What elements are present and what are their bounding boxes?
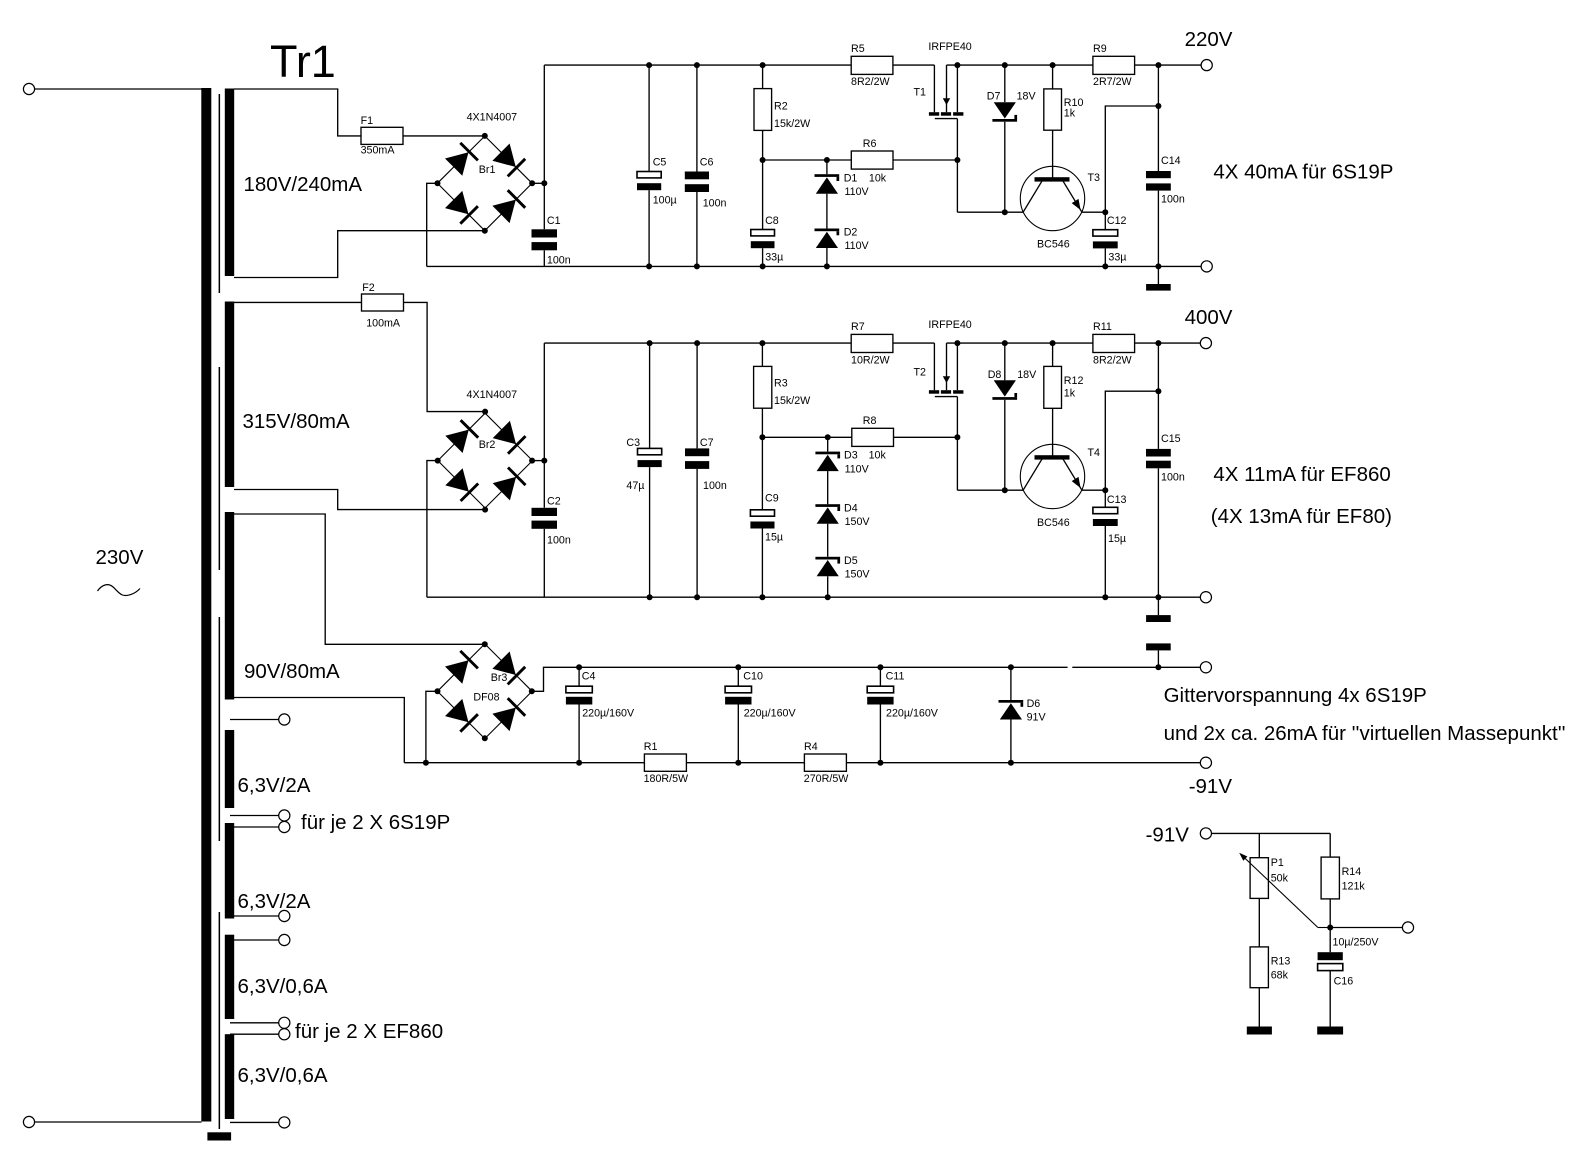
resistor R13 [1250, 947, 1268, 988]
wire C12 top lead [1104, 212, 1106, 230]
svg-text:C15: C15 [1161, 433, 1181, 445]
wire heater tap 6S19P a [230, 815, 279, 817]
svg-text:R11: R11 [1093, 321, 1112, 333]
zener diode D6 91V [999, 700, 1024, 720]
bridge rectifier Br1 diode L-T [445, 143, 478, 176]
ground bar section 1 [1146, 284, 1171, 291]
node C4 bottom [576, 760, 582, 766]
wire D6 bottom lead [1010, 720, 1012, 763]
svg-text:R14: R14 [1342, 866, 1362, 878]
svg-text:8R2/2W: 8R2/2W [1093, 354, 1133, 366]
svg-text:D5: D5 [844, 555, 858, 567]
wire R8 feedback line [762, 436, 851, 438]
wire bottom rail 1 [427, 265, 1201, 267]
zener diode D1 110V [815, 174, 840, 194]
svg-text:110V: 110V [845, 240, 870, 252]
terminal return 220V [1201, 261, 1212, 272]
wire C9 top lead [761, 437, 763, 510]
wire D1 top lead [826, 160, 828, 174]
svg-text:4X 40mA für 6S19P: 4X 40mA für 6S19P [1213, 161, 1393, 184]
capacitor C8 [751, 230, 775, 249]
node R10 top [1050, 62, 1056, 68]
bridge rectifier Br1 diode T-R [492, 144, 525, 177]
wire R8 to gate node [894, 436, 958, 438]
wire T1 gate drop [956, 119, 958, 213]
wire top rail 3 right segment [1072, 666, 1200, 668]
svg-text:-91V: -91V [1189, 775, 1233, 798]
wire heater tap 6,3V/2A b1 [230, 915, 279, 917]
terminal bias 0V [1200, 662, 1211, 673]
terminal heater tap 6S19P b [279, 821, 290, 832]
transistor T3 BC546 circle [1020, 166, 1084, 230]
wire R14 bottom lead [1329, 899, 1331, 928]
svg-text:D4: D4 [844, 502, 858, 514]
zener diode D2 110V [815, 229, 840, 249]
wire winding2 top to F2 [234, 301, 362, 303]
wire C8 bottom lead [762, 248, 764, 266]
svg-text:D8: D8 [988, 369, 1002, 381]
node D3 top [825, 434, 831, 440]
wire C2 bottom [543, 529, 545, 597]
terminal output 220V [1201, 60, 1212, 71]
node sense C14 [1155, 103, 1161, 109]
svg-text:15µ: 15µ [765, 532, 783, 544]
wire sense line 2 [1105, 391, 1158, 490]
wire C14 top lead [1157, 65, 1159, 171]
svg-text:für je 2 X EF860: für je 2 X EF860 [295, 1020, 443, 1043]
svg-text:und 2x ca. 26mA für ''virtuel: und 2x ca. 26mA für ''virtuellen Massepu… [1164, 722, 1566, 745]
node Br3 bottom [482, 735, 488, 741]
node R11 right [1155, 340, 1161, 346]
svg-text:R7: R7 [851, 321, 865, 333]
resistor R7 [851, 334, 893, 352]
svg-text:R4: R4 [804, 741, 818, 753]
svg-text:T3: T3 [1088, 172, 1101, 184]
svg-text:2R7/2W: 2R7/2W [1093, 76, 1133, 88]
wire C4 top lead [578, 667, 580, 686]
wire top rail 1 right [947, 64, 1202, 66]
svg-text:R3: R3 [774, 378, 788, 390]
svg-text:10k: 10k [869, 172, 887, 184]
wire Br3 right to top rail 3 [532, 667, 1068, 691]
svg-text:T4: T4 [1088, 447, 1101, 459]
wire C6 bottom lead [696, 192, 698, 266]
svg-text:DF08: DF08 [473, 692, 499, 704]
node Br3 rail junction [423, 760, 429, 766]
node Br2 left [435, 458, 441, 464]
svg-text:270R/5W: 270R/5W [804, 773, 849, 785]
node C11 top [877, 664, 883, 670]
node sense C15 [1155, 388, 1161, 394]
svg-text:91V: 91V [1027, 712, 1047, 724]
wire heater tap bottom [230, 1121, 279, 1123]
terminal primary top-left [23, 83, 34, 94]
wire P1 to R13 [1258, 898, 1260, 947]
wire C12 bottom lead [1104, 248, 1106, 266]
wire P1 top lead [1258, 833, 1260, 857]
svg-text:C16: C16 [1334, 976, 1354, 988]
svg-text:C12: C12 [1107, 215, 1127, 227]
transistor T1 IRFPE40 gate line [935, 118, 958, 120]
wire wiper output [1330, 927, 1402, 929]
wire Br2 plus [532, 460, 544, 462]
bridge rectifier Br3 diamond outline [437, 644, 532, 739]
svg-text:P1: P1 [1271, 857, 1284, 869]
terminal heater tap 6S19P a [279, 810, 290, 821]
svg-text:T2: T2 [914, 367, 927, 379]
svg-text:230V: 230V [96, 546, 144, 569]
node C5 bottom [646, 263, 652, 269]
svg-text:R8: R8 [863, 415, 877, 427]
fuse F1 [361, 127, 403, 144]
svg-text:18V: 18V [1017, 369, 1037, 381]
transistor T1 IRFPE40 drain lead [933, 65, 935, 112]
node C5 top [646, 62, 652, 68]
transistor T2 IRFPE40 channel bars [929, 390, 963, 394]
bridge rectifier Br3 diode L-T [445, 651, 478, 684]
wire C5 top lead [648, 65, 650, 171]
node R2-R6 [760, 157, 766, 163]
wire heater tap EF860 b [230, 1033, 279, 1035]
wire C7 bottom lead [696, 469, 698, 597]
svg-text:10k: 10k [869, 450, 887, 462]
node R2 top [760, 62, 766, 68]
svg-text:Br3: Br3 [491, 672, 508, 684]
capacitor C14 [1146, 171, 1171, 191]
transistor T2 IRFPE40 source lead [956, 343, 958, 390]
wire C3 top lead [649, 343, 651, 448]
transformer secondary winding bar 6,3V/0,6A a [225, 935, 234, 1019]
svg-text:50k: 50k [1271, 873, 1289, 885]
capacitor C7 [685, 448, 709, 469]
wire DC riser C1 [543, 65, 545, 229]
node C7 top [694, 340, 700, 346]
resistor R14 [1321, 857, 1339, 899]
terminal primary bottom-left [23, 1116, 34, 1127]
zener diode D8 18V [992, 380, 1017, 400]
svg-text:D2: D2 [844, 227, 858, 239]
node C14 bottom [1155, 263, 1161, 269]
svg-text:8R2/2W: 8R2/2W [851, 76, 891, 88]
svg-text:für je 2 X 6S19P: für je 2 X 6S19P [301, 811, 450, 834]
wire C16 top lead [1329, 928, 1331, 953]
svg-text:C7: C7 [700, 437, 714, 449]
wire R3 top lead [761, 343, 763, 366]
svg-text:100n: 100n [703, 480, 727, 492]
wire winding1 top to F1 [234, 89, 361, 136]
node Br1 bottom [482, 228, 488, 234]
capacitor C6 [685, 172, 709, 193]
node D8 top [1002, 340, 1008, 346]
wire C10 top lead [737, 667, 739, 686]
wire C13 top lead [1104, 490, 1106, 507]
bridge rectifier Br2 diode B-R [493, 468, 526, 501]
transistor T2 IRFPE40 drain lead [933, 343, 935, 390]
svg-text:Br1: Br1 [479, 164, 496, 176]
wire primary bottom [35, 1121, 202, 1123]
node Br3 left [435, 688, 441, 694]
terminal output 400V [1200, 338, 1211, 349]
svg-text:15k/2W: 15k/2W [774, 395, 811, 407]
node T2 source rail [954, 340, 960, 346]
wire C13 bottom lead [1104, 526, 1106, 597]
transistor T2 IRFPE40 gate line [935, 396, 958, 398]
wire R10 bottom lead [1052, 130, 1054, 177]
node D7 base junction [1002, 209, 1008, 215]
potentiometer P1 50k [1250, 858, 1268, 899]
svg-text:-91V: -91V [1146, 824, 1190, 847]
wire D1-D2 link [826, 194, 828, 229]
node C3 top [647, 340, 653, 346]
svg-text:33µ: 33µ [1108, 251, 1126, 263]
svg-text:C10: C10 [743, 670, 763, 682]
wire top rail 1 left [544, 64, 934, 66]
svg-text:C1: C1 [547, 215, 561, 227]
svg-text:4X1N4007: 4X1N4007 [467, 389, 518, 401]
capacitor C11 [867, 686, 893, 704]
capacitor C3 [638, 448, 662, 467]
wire DC riser C2 [543, 343, 545, 508]
svg-text:100n: 100n [1161, 472, 1185, 484]
resistor R11 [1093, 334, 1135, 352]
AC squiggle under 230V [98, 585, 141, 596]
capacitor C10 [725, 686, 751, 704]
node Br1 left [435, 180, 441, 186]
wire top rail 2 right [947, 342, 1201, 344]
transformer secondary winding bar 6,3V/0,6A b [225, 1034, 234, 1119]
wire D4-D5 link [827, 524, 829, 557]
node D2 bottom [824, 263, 830, 269]
wire base line T3 [957, 211, 1023, 213]
transformer Tr1 primary winding bar [201, 88, 211, 1122]
wire winding3 bottom to rail [234, 698, 404, 763]
wire sense line 1 [1105, 106, 1158, 212]
node C8 bottom [760, 263, 766, 269]
svg-text:110V: 110V [845, 463, 870, 475]
wire C8 top lead [762, 160, 764, 230]
svg-text:1k: 1k [1064, 107, 1076, 119]
capacitor C2 [532, 508, 558, 529]
zener diode D4 150V [815, 504, 840, 524]
transistor T3 BC546 base bar [1035, 177, 1070, 181]
svg-text:6,3V/0,6A: 6,3V/0,6A [238, 1064, 328, 1087]
wire C14 bottom lead [1157, 191, 1159, 267]
svg-text:C4: C4 [582, 670, 596, 682]
svg-text:150V: 150V [845, 569, 871, 581]
terminal heater tap 6,3V/2A b1 [279, 910, 290, 921]
svg-text:100n: 100n [1161, 194, 1185, 206]
svg-text:D6: D6 [1027, 698, 1041, 710]
node D1 top [824, 157, 830, 163]
wire winding3 top to Br3 [234, 514, 485, 644]
wire C4 bottom lead [578, 705, 580, 763]
svg-text:IRFPE40: IRFPE40 [928, 319, 971, 331]
transistor T4 BC546 collector lead [1023, 459, 1042, 490]
svg-text:D1: D1 [844, 172, 858, 184]
svg-text:F1: F1 [361, 115, 374, 127]
wire R6 to gate node [893, 159, 957, 161]
svg-text:IRFPE40: IRFPE40 [928, 41, 971, 53]
node emitter C12 [1102, 209, 1108, 215]
svg-text:BC546: BC546 [1037, 238, 1070, 250]
wire C5 bottom lead [648, 190, 650, 266]
wire T4 emitter to C13 [1082, 489, 1106, 491]
zener diode D3 110V [815, 452, 840, 472]
capacitor C12 [1093, 230, 1118, 249]
svg-text:T1: T1 [914, 87, 927, 99]
wire R12 top lead [1052, 343, 1054, 366]
svg-text:1k: 1k [1064, 387, 1076, 399]
node D5 bottom [825, 594, 831, 600]
node R12 top [1050, 340, 1056, 346]
node C11 bottom [877, 760, 883, 766]
resistor R1 [644, 754, 686, 771]
svg-text:100mA: 100mA [366, 318, 401, 330]
svg-text:R13: R13 [1271, 956, 1291, 968]
svg-text:18V: 18V [1017, 91, 1037, 103]
node Br3 right [529, 688, 535, 694]
svg-text:R6: R6 [863, 138, 877, 150]
wire C11 bottom lead [879, 705, 881, 763]
transformer secondary winding bar 180V [225, 89, 234, 277]
svg-text:C8: C8 [765, 215, 779, 227]
svg-text:C2: C2 [547, 496, 561, 508]
bridge rectifier Br3 diode T-R [492, 652, 525, 685]
zener diode D5 150V [815, 557, 840, 577]
wire C10 bottom lead [737, 705, 739, 763]
wire C3 bottom lead [649, 467, 651, 597]
svg-text:15k/2W: 15k/2W [774, 118, 811, 130]
svg-text:R1: R1 [644, 741, 658, 753]
node Br2 right [529, 458, 535, 464]
terminal -91V input [1200, 828, 1211, 839]
node Br2 plus junction [541, 458, 547, 464]
svg-text:180V/240mA: 180V/240mA [244, 173, 363, 196]
terminal heater tap EF860 b [279, 1029, 290, 1040]
node T1 source rail [954, 62, 960, 68]
transistor T4 BC546 emitter lead with arrow [1063, 459, 1082, 490]
transistor T2 IRFPE40 body-diode arrow [946, 343, 948, 390]
svg-text:R2: R2 [774, 101, 788, 113]
node Br1 top [482, 133, 488, 139]
bridge rectifier Br2 diamond outline [438, 413, 533, 508]
node rail3 ground [1155, 664, 1161, 670]
node C10 bottom [735, 760, 741, 766]
wire top rail 2 left [544, 342, 934, 344]
terminal heater tap 6,3V/0,6A a1 [279, 934, 290, 945]
wire F1 to Br1 top [403, 135, 485, 137]
terminal heater tap 90V aux [279, 714, 290, 725]
wire winding1 bottom to Br1 [234, 231, 485, 278]
capacitor C16 [1318, 952, 1343, 970]
svg-text:Gittervorspannung 4x 6S19P: Gittervorspannung 4x 6S19P [1164, 684, 1427, 707]
bridge rectifier Br1 diamond outline [437, 136, 532, 231]
svg-text:315V/80mA: 315V/80mA [243, 410, 350, 433]
node Br2 top [482, 409, 488, 415]
transformer secondary winding bar 90V [225, 512, 234, 700]
wire ground stub 1 [1157, 266, 1159, 284]
potentiometer P1 wiper arrow [1318, 927, 1330, 929]
svg-text:BC546: BC546 [1037, 517, 1070, 529]
resistor R2 [754, 89, 772, 131]
svg-text:C3: C3 [626, 437, 640, 449]
svg-text:Br2: Br2 [479, 439, 496, 451]
node Br1 plus junction [541, 180, 547, 186]
svg-text:100µ: 100µ [653, 195, 677, 207]
transformer secondary winding bar 315V [225, 302, 234, 488]
bridge rectifier Br3 diode L-B [445, 699, 478, 732]
transformer secondary winding bar 6,3V/2A a [225, 730, 234, 808]
svg-text:220µ/160V: 220µ/160V [582, 708, 635, 720]
svg-text:400V: 400V [1185, 306, 1233, 329]
wire C7 top lead [696, 343, 698, 448]
terminal -91V [1200, 757, 1211, 768]
node C3 bottom [647, 594, 653, 600]
svg-text:D3: D3 [844, 450, 858, 462]
ground bar section 2 [1146, 615, 1171, 622]
node R3 top [759, 340, 765, 346]
svg-text:220µ/160V: 220µ/160V [744, 708, 797, 720]
svg-text:100n: 100n [547, 535, 571, 547]
bridge rectifier Br3 diode B-R [492, 698, 525, 731]
node gate-R8 [954, 434, 960, 440]
svg-text:C6: C6 [700, 156, 714, 168]
wire C9 bottom lead [761, 529, 763, 598]
svg-text:R9: R9 [1093, 43, 1107, 55]
svg-text:C14: C14 [1161, 155, 1181, 167]
svg-text:C9: C9 [765, 493, 779, 505]
bridge rectifier Br2 diode L-B [445, 468, 478, 501]
svg-text:F2: F2 [362, 282, 375, 294]
wire R10 top lead [1052, 65, 1054, 89]
wire heater tap EF860 a [230, 1022, 279, 1024]
wire R2 bottom lead [762, 130, 764, 160]
node R9 right [1155, 62, 1161, 68]
wire ground stub 2 [1157, 597, 1159, 615]
svg-text:180R/5W: 180R/5W [644, 773, 689, 785]
node Br1 right [529, 180, 535, 186]
resistor R10 [1044, 89, 1062, 130]
resistor R3 [754, 366, 772, 408]
transistor T4 BC546 base bar [1035, 455, 1070, 459]
svg-text:R12: R12 [1064, 375, 1084, 387]
bridge rectifier Br1 diode L-B [445, 191, 478, 224]
transistor T1 IRFPE40 channel bars [929, 112, 963, 116]
svg-text:350mA: 350mA [361, 145, 396, 157]
node D8 base junction [1002, 487, 1008, 493]
svg-text:90V/80mA: 90V/80mA [244, 660, 340, 683]
wire C16 bottom lead [1329, 971, 1331, 1027]
wire D3-D4 link [827, 471, 829, 504]
node C7 bottom [694, 594, 700, 600]
wire R6 feedback line [763, 159, 852, 161]
svg-text:10R/2W: 10R/2W [851, 354, 891, 366]
wire D8 top lead [1004, 343, 1006, 380]
terminal return 400V [1200, 592, 1211, 603]
wire F2 to Br2 top [404, 302, 486, 411]
wire D2 bottom lead [826, 248, 828, 266]
capacitor C4 [566, 686, 592, 704]
capacitor C5 [637, 172, 661, 191]
wire C15 bottom lead [1157, 468, 1159, 597]
node C6 bottom [694, 263, 700, 269]
terminal wiper output [1402, 922, 1413, 933]
node R3-R8 [759, 434, 765, 440]
wire C11 top lead [879, 667, 881, 686]
wire heater tap 90V aux [230, 719, 279, 721]
zener diode D7 18V [992, 102, 1017, 122]
wire Br1 plus [532, 182, 544, 184]
